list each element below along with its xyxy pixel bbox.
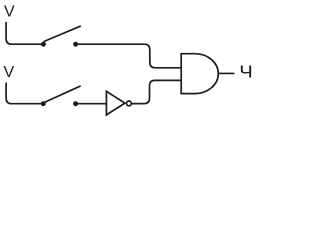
wire from V1 down to top rail: [6, 23, 41, 45]
wire from S1 to AND gate input A: [76, 44, 182, 68]
switch S1 right contact: [73, 42, 78, 47]
switch S2 lever: [44, 86, 80, 102]
switch S2 right contact: [73, 101, 78, 106]
switch S1 left contact: [41, 42, 46, 47]
output wire: [218, 72, 234, 74]
svg-text:V: V: [4, 64, 15, 81]
svg-text:V: V: [4, 4, 15, 21]
AND gate U2: [181, 54, 218, 94]
switch S1 lever: [44, 26, 80, 41]
svg-text:Ч: Ч: [239, 62, 253, 82]
inverter U1 bubble: [126, 101, 131, 106]
wire from S2 to inverter input: [76, 103, 107, 105]
switch S2 left contact: [41, 101, 46, 106]
wire from V2 down to bottom rail: [6, 83, 41, 104]
wire from inverter to AND gate input B: [132, 80, 181, 103]
inverter U1 (NOT gate triangle): [106, 91, 125, 115]
